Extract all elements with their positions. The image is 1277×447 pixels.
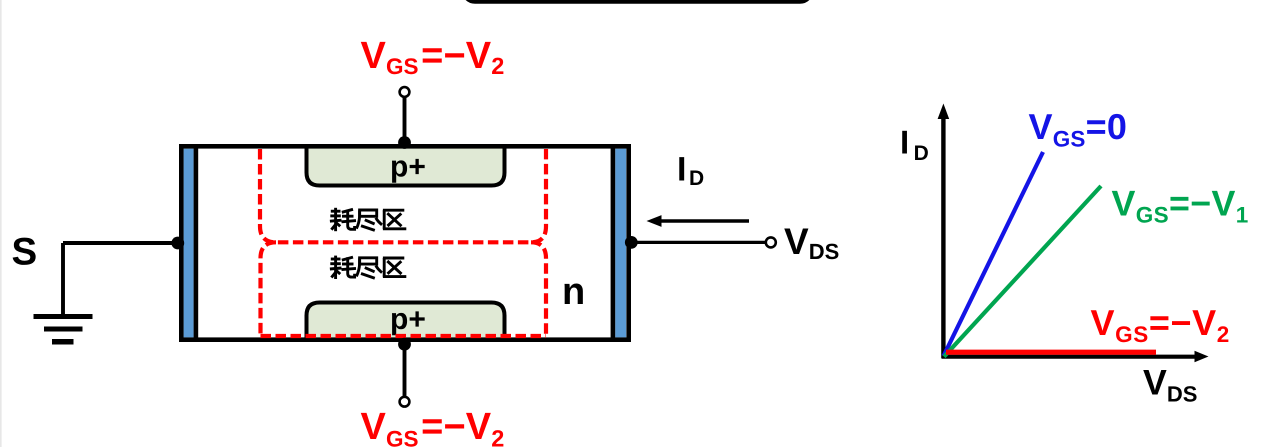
- curve VGS=-V1 (green): [944, 186, 1101, 357]
- svg-text:ID: ID: [677, 151, 704, 191]
- wire bottom gate: [403, 344, 407, 398]
- depletion boundary top region (red dashed): [260, 149, 546, 242]
- depletion boundary bottom line: [261, 334, 547, 338]
- x axis: [942, 355, 1198, 359]
- svg-text:VGS=0: VGS=0: [1029, 106, 1128, 152]
- svg-text:VGS=−V2: VGS=−V2: [361, 35, 505, 79]
- svg-text:VDS: VDS: [784, 221, 839, 264]
- title box bottom (partial rounded rect at top): [464, 0, 811, 1]
- current arrow ID: [647, 215, 750, 227]
- wire top gate: [403, 95, 407, 143]
- svg-text:VDS: VDS: [1143, 363, 1197, 407]
- terminal circle bottom: [400, 397, 410, 407]
- depletion boundary bottom-left corner: [261, 242, 277, 336]
- source metal bar (blue left): [184, 149, 194, 338]
- node S wire horizontal: [63, 241, 180, 245]
- curve VGS=0 (blue): [944, 152, 1044, 356]
- curve VGS=-V2 (red): [946, 350, 1156, 355]
- p+ region bottom: [307, 303, 505, 342]
- junction dot drain: [625, 236, 638, 249]
- svg-text:p+: p+: [390, 303, 426, 336]
- terminal circle top: [400, 87, 410, 97]
- label 耗尽区 (bottom depletion region): [330, 256, 406, 279]
- junction dot gate top: [398, 136, 411, 149]
- slide left edge line: [0, 0, 2, 447]
- label 耗尽区 (top depletion region): [330, 208, 406, 231]
- drain metal bar (blue right): [615, 149, 626, 338]
- svg-text:VGS=−V2: VGS=−V2: [361, 406, 505, 447]
- svg-text:ID: ID: [900, 124, 929, 165]
- wire drain to VDS: [631, 241, 765, 244]
- svg-text:n: n: [562, 271, 585, 313]
- junction dot gate bottom: [398, 338, 411, 351]
- terminal circle VDS: [766, 237, 776, 247]
- channel body border: [181, 146, 628, 339]
- svg-text:VGS=−V1: VGS=−V1: [1112, 183, 1249, 227]
- svg-text:S: S: [12, 230, 38, 273]
- junction dot source: [171, 237, 184, 250]
- svg-text:VGS=−V2: VGS=−V2: [1091, 302, 1230, 347]
- depletion boundary bottom-right corner: [531, 242, 546, 336]
- ground: [34, 317, 93, 342]
- svg-text:p+: p+: [390, 151, 426, 184]
- y axis: [941, 116, 945, 358]
- p+ region top: [307, 145, 505, 186]
- channel body fill n: [179, 144, 631, 342]
- wire S vertical: [61, 243, 65, 316]
